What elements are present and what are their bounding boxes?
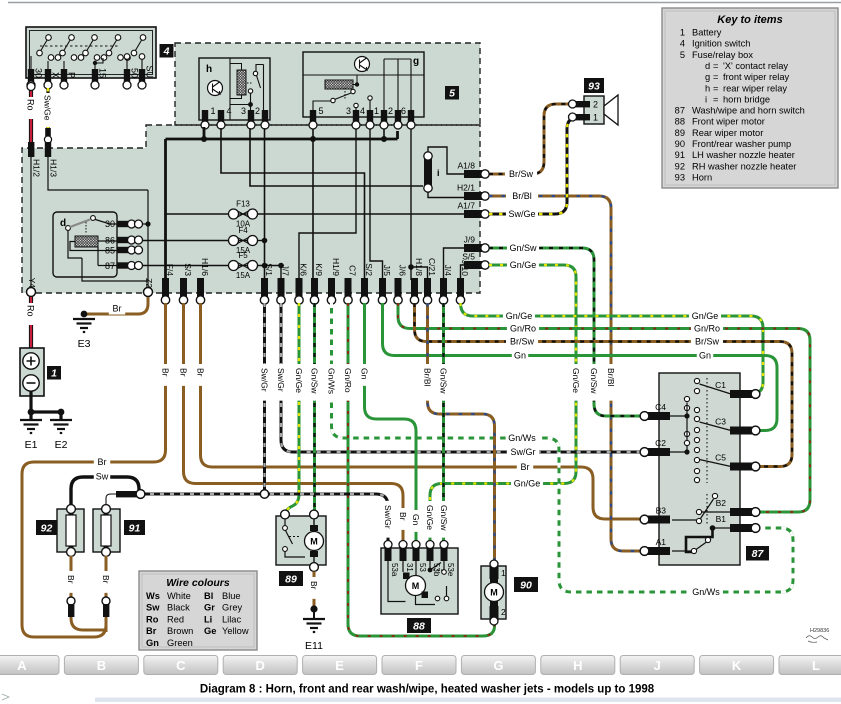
wire Gn/Ws H1/9 to B1 xyxy=(332,303,794,592)
svg-text:2: 2 xyxy=(388,106,393,116)
fuse F4 xyxy=(233,240,253,242)
relay g xyxy=(303,52,424,117)
svg-text:Br: Br xyxy=(98,457,107,467)
svg-text:M: M xyxy=(412,581,420,591)
svg-text:G: G xyxy=(493,658,503,673)
wire name labels xyxy=(505,168,537,180)
svg-text:Gn/Sw: Gn/Sw xyxy=(439,368,449,394)
svg-text:F5: F5 xyxy=(238,251,248,260)
svg-text:Gr: Gr xyxy=(204,603,215,613)
horn 93 xyxy=(584,78,604,93)
svg-text:rear wiper relay: rear wiper relay xyxy=(723,83,787,93)
svg-text:4: 4 xyxy=(360,106,365,116)
svg-text:Gn/Ge: Gn/Ge xyxy=(692,311,719,321)
svg-text:Br: Br xyxy=(161,368,171,377)
svg-text:Fuse/relay box: Fuse/relay box xyxy=(692,50,753,60)
svg-text:Red: Red xyxy=(167,614,184,624)
svg-text:B3: B3 xyxy=(656,506,667,516)
svg-text:5: 5 xyxy=(680,50,685,60)
svg-text:Br: Br xyxy=(113,304,122,314)
svg-text:=: = xyxy=(713,72,718,82)
svg-text:White: White xyxy=(167,591,191,601)
inner wiring: H1/2 to Y4 xyxy=(30,157,32,288)
svg-text:30: 30 xyxy=(34,68,44,78)
svg-text:A1/8: A1/8 xyxy=(458,161,476,171)
wire Gn/Sw K/9 to 89 xyxy=(313,303,316,510)
svg-text:Wire colours: Wire colours xyxy=(166,577,230,589)
relay d xyxy=(53,212,117,277)
svg-text:Gn/Sw: Gn/Sw xyxy=(310,368,320,394)
svg-text:Key to items: Key to items xyxy=(717,14,782,26)
inner wiring: g pin3 to K/6 xyxy=(299,129,356,280)
svg-text:Ge: Ge xyxy=(204,626,216,636)
ground E1 xyxy=(20,419,42,421)
svg-text:H1/2: H1/2 xyxy=(32,159,42,177)
inner wiring: F5 left to d-87 xyxy=(143,265,229,267)
svg-text:J/6: J/6 xyxy=(398,265,408,277)
svg-text:Gn: Gn xyxy=(514,351,526,361)
inner wiring: d-87 area to Z2 xyxy=(82,258,148,281)
svg-text:J/4: J/4 xyxy=(443,265,453,277)
svg-text:Gn: Gn xyxy=(146,638,159,648)
relay h xyxy=(199,58,270,120)
svg-text:Gn/Ge: Gn/Ge xyxy=(294,368,304,393)
wire Br/Bl C/21 to 90 pin1 xyxy=(428,303,495,560)
svg-text:Gn/Ge: Gn/Ge xyxy=(514,479,541,489)
svg-text:Brown: Brown xyxy=(167,626,193,636)
svg-text:1: 1 xyxy=(680,28,685,38)
wire Br/Bl H2/1 to A1 xyxy=(489,196,640,551)
svg-text:Sw/Ge: Sw/Ge xyxy=(508,209,535,219)
ground E3 xyxy=(73,318,95,320)
rotated labels near 88 xyxy=(383,501,394,538)
svg-text:C1: C1 xyxy=(715,380,726,390)
inner wiring: H1/3 down and right to Z2 riser xyxy=(48,157,148,288)
svg-text:L: L xyxy=(812,658,820,673)
svg-text:S/3: S/3 xyxy=(183,263,193,276)
svg-text:J/7: J/7 xyxy=(281,265,291,277)
inner wiring: d-30 to riser xyxy=(143,223,149,225)
svg-text:F4: F4 xyxy=(238,226,248,235)
svg-text:Black: Black xyxy=(167,603,190,613)
fuse/relay box 5 dashed outline relay sub-box xyxy=(175,43,480,125)
svg-text:Horn: Horn xyxy=(692,172,712,182)
svg-text:1: 1 xyxy=(593,113,598,123)
rotated labels heaters xyxy=(66,571,77,593)
svg-text:d: d xyxy=(705,61,710,71)
svg-text:F: F xyxy=(415,658,423,673)
svg-text:89: 89 xyxy=(675,128,685,138)
svg-text:Rear wiper motor: Rear wiper motor xyxy=(692,128,763,138)
svg-text:B2: B2 xyxy=(716,498,727,508)
svg-text:B: B xyxy=(97,658,106,673)
fuse F5 xyxy=(233,265,253,267)
svg-text:E3: E3 xyxy=(78,338,91,350)
svg-text:85: 85 xyxy=(105,246,115,256)
rear wiper motor 89 xyxy=(276,516,326,565)
inner wiring: F4 left to d-86 xyxy=(143,240,229,242)
svg-text:2: 2 xyxy=(255,106,260,116)
svg-text:Ignition switch: Ignition switch xyxy=(692,39,750,49)
svg-text:g: g xyxy=(413,56,419,67)
svg-text:B1: B1 xyxy=(716,514,727,524)
svg-text:50: 50 xyxy=(130,68,140,78)
svg-text:86: 86 xyxy=(105,236,115,246)
svg-text:Gn/Ge: Gn/Ge xyxy=(510,260,537,270)
wire Sw/Gr connector line to 88 pin 53a xyxy=(140,494,388,541)
svg-text:4: 4 xyxy=(163,46,170,58)
svg-text:31: 31 xyxy=(405,563,414,572)
svg-text:K/6: K/6 xyxy=(299,263,309,276)
svg-text:H29836: H29836 xyxy=(810,628,829,634)
svg-text:K/9: K/9 xyxy=(314,263,324,276)
svg-text:H1/3: H1/3 xyxy=(49,159,59,177)
wash/wipe and horn switch 87 xyxy=(659,373,740,565)
svg-text:1: 1 xyxy=(374,106,379,116)
svg-text:Ro: Ro xyxy=(26,305,36,317)
inline connector 92 xyxy=(67,597,75,605)
svg-text:J: J xyxy=(654,658,661,673)
svg-text:Br: Br xyxy=(196,368,206,377)
wire Gn/Ge S/5 to 88 pin 53b xyxy=(430,265,576,541)
wire Br E3 to Z2 xyxy=(84,297,148,314)
svg-text:Gn/Ro: Gn/Ro xyxy=(694,324,720,334)
svg-text:S/5: S/5 xyxy=(462,252,475,262)
svg-text:A1: A1 xyxy=(656,537,667,547)
svg-text:15A: 15A xyxy=(236,271,251,280)
ignition switch 4 xyxy=(26,27,156,78)
inner wiring: h pin2 to S/1 with fuse taps xyxy=(264,128,266,280)
svg-text:H1/9: H1/9 xyxy=(331,258,341,276)
svg-text:C: C xyxy=(176,658,186,673)
inner wiring: h pin3 to i bridge xyxy=(250,128,423,186)
svg-text:91: 91 xyxy=(675,150,685,160)
svg-text:Li: Li xyxy=(204,614,212,624)
svg-text:90: 90 xyxy=(675,139,685,149)
svg-text:RH washer nozzle heater: RH washer nozzle heater xyxy=(692,161,796,171)
svg-text:Gn/Sw: Gn/Sw xyxy=(509,243,537,253)
svg-text:5: 5 xyxy=(319,106,324,116)
svg-text:H1/8: H1/8 xyxy=(414,258,424,276)
svg-text:front wiper relay: front wiper relay xyxy=(723,72,789,82)
svg-text:Sw/Gr: Sw/Gr xyxy=(510,447,535,457)
svg-text:Br: Br xyxy=(521,462,530,472)
svg-text:LH washer nozzle heater: LH washer nozzle heater xyxy=(692,150,795,160)
inner wiring: g pin6 to H1/8 and C/21 xyxy=(411,129,428,280)
svg-text:E: E xyxy=(335,658,344,673)
svg-text:2: 2 xyxy=(501,607,506,617)
svg-text:53a: 53a xyxy=(390,563,399,577)
svg-text:Br/Sw: Br/Sw xyxy=(509,169,534,179)
svg-text:4: 4 xyxy=(680,39,685,49)
svg-text:A1/7: A1/7 xyxy=(458,201,476,211)
svg-text:E1: E1 xyxy=(25,439,38,451)
svg-text:'X' contact relay: 'X' contact relay xyxy=(723,61,788,71)
wire Sw 92 to connector xyxy=(71,477,139,505)
svg-text:Gn: Gn xyxy=(360,368,370,380)
bottom terminals of fusebox xyxy=(162,278,169,298)
svg-text:C/21: C/21 xyxy=(427,258,437,276)
label 87 xyxy=(746,546,769,561)
svg-text:J/5: J/5 xyxy=(382,265,392,277)
wire Br 89 to E11 xyxy=(313,572,316,607)
svg-text:Br/Bl: Br/Bl xyxy=(606,368,616,387)
wire Gn J/5 to C3 xyxy=(383,303,778,431)
inner wiring: g pin4 to J/5 xyxy=(370,129,383,280)
svg-text:=: = xyxy=(713,83,718,93)
svg-text:90: 90 xyxy=(520,579,532,591)
horn bridge i xyxy=(424,158,432,186)
top border line xyxy=(8,2,841,4)
svg-text:Front wiper motor: Front wiper motor xyxy=(692,117,765,127)
inner wiring: S/5 to J/10 xyxy=(461,265,465,280)
front wiper motor 88 xyxy=(381,548,458,614)
junction circle S/1 xyxy=(260,490,268,498)
washer pump 90 xyxy=(481,566,506,619)
key to items legend xyxy=(662,8,838,188)
ground E11 xyxy=(303,618,325,620)
battery 1 xyxy=(20,348,44,396)
svg-text:Yellow: Yellow xyxy=(222,626,249,636)
svg-text:Sw/Gr: Sw/Gr xyxy=(276,368,286,392)
svg-text:C5: C5 xyxy=(715,453,726,463)
svg-text:Bl: Bl xyxy=(204,591,213,601)
svg-text:Sw: Sw xyxy=(96,472,109,482)
svg-text:i: i xyxy=(437,168,440,178)
svg-text:D: D xyxy=(256,658,265,673)
wire Sw/Ge A1/7 to horn xyxy=(489,117,579,214)
svg-text:Gn/Ge: Gn/Ge xyxy=(425,505,435,530)
svg-text:87: 87 xyxy=(675,106,685,116)
svg-text:=: = xyxy=(713,94,718,104)
svg-text:A: A xyxy=(17,658,27,673)
bottom edge strip xyxy=(95,698,841,703)
inner wiring: h pin4 to S/2 xyxy=(221,128,365,280)
column letter buttons xyxy=(0,656,59,675)
svg-text:53e: 53e xyxy=(446,563,455,577)
wire colours legend xyxy=(139,571,257,650)
svg-text:Sw: Sw xyxy=(146,603,160,613)
svg-text:M: M xyxy=(310,537,318,547)
svg-text:Grey: Grey xyxy=(222,603,242,613)
svg-text:Sw/Gr: Sw/Gr xyxy=(260,368,270,392)
svg-text:Br/Sw: Br/Sw xyxy=(510,337,535,347)
svg-text:89: 89 xyxy=(285,573,297,585)
fuse/relay box 5 tinted area xyxy=(22,43,480,293)
svg-text:C2: C2 xyxy=(655,438,666,448)
right edge terminals of fusebox xyxy=(464,170,482,178)
svg-text:92: 92 xyxy=(41,522,53,534)
wire Gn/Ge K/6 to 89 xyxy=(285,303,299,517)
rotated wire labels below fusebox xyxy=(160,364,171,386)
svg-text:Sw/Ge: Sw/Ge xyxy=(43,95,53,121)
inner wiring: g pin1 stub xyxy=(383,129,385,139)
inner wiring: F13 right to A1/7 xyxy=(258,213,465,215)
svg-text:1: 1 xyxy=(501,568,506,578)
svg-text:88: 88 xyxy=(413,620,425,632)
svg-text:H: H xyxy=(573,658,582,673)
inner wiring: thick bus from h pin1 / F4 terminal xyxy=(166,127,398,280)
svg-text:i: i xyxy=(705,94,707,104)
svg-text:C7: C7 xyxy=(348,265,358,276)
svg-text:Blue: Blue xyxy=(222,591,241,601)
svg-text:6: 6 xyxy=(401,106,406,116)
inline connector 91 xyxy=(102,597,110,605)
inner wiring: F13 left xyxy=(166,213,229,215)
svg-text:Ro: Ro xyxy=(26,99,36,111)
svg-text:S/1: S/1 xyxy=(264,263,274,276)
label 5 xyxy=(445,86,459,100)
svg-text:SU: SU xyxy=(145,65,155,78)
svg-text:E2: E2 xyxy=(55,439,68,451)
svg-text:Br/Bl: Br/Bl xyxy=(423,368,433,387)
svg-text:Br: Br xyxy=(309,581,319,590)
svg-text:2: 2 xyxy=(593,100,598,110)
svg-text:K: K xyxy=(732,658,742,673)
svg-text:30: 30 xyxy=(105,219,115,229)
wire Sw/Gr S/1 down to junction xyxy=(263,303,266,490)
svg-text:Gn/Sw: Gn/Sw xyxy=(439,505,449,531)
svg-text:4: 4 xyxy=(227,106,232,116)
svg-text:Br: Br xyxy=(146,626,157,636)
svg-text:Y4: Y4 xyxy=(27,278,37,289)
wire Sw/Ge ignition to H1/3 xyxy=(46,88,49,130)
svg-text:Gn: Gn xyxy=(699,351,711,361)
svg-text:Green: Green xyxy=(167,638,193,648)
svg-text:Ws: Ws xyxy=(146,591,160,601)
svg-text:Diagram 8 : Horn, front and re: Diagram 8 : Horn, front and rear wash/wi… xyxy=(200,684,655,696)
svg-text:88: 88 xyxy=(675,117,685,127)
svg-text:C3: C3 xyxy=(715,417,726,427)
svg-text:F/4: F/4 xyxy=(165,264,175,277)
label 1 xyxy=(47,366,61,380)
svg-text:H1/6: H1/6 xyxy=(200,258,210,276)
svg-text:horn bridge: horn bridge xyxy=(723,94,770,104)
wire Br/Sw H1/8 to C5 xyxy=(415,303,793,467)
wire Gn/Sw J/4 to 88 pin 53e xyxy=(442,303,445,541)
terminal Z2 xyxy=(144,288,153,297)
svg-text:Br/Bl: Br/Bl xyxy=(512,191,532,201)
svg-text:S/2: S/2 xyxy=(364,263,374,276)
wire Gn S/2 to 88 pin 53 xyxy=(365,303,417,541)
inline connector 91/92 junction xyxy=(116,491,137,497)
wire Br H1/6 to B3 xyxy=(201,303,641,519)
svg-text:93: 93 xyxy=(588,80,600,92)
svg-text:C4: C4 xyxy=(655,402,666,412)
svg-text:X: X xyxy=(51,72,61,78)
svg-text:Ro: Ro xyxy=(146,614,159,624)
wire Br/Sw A1/8 to horn xyxy=(489,104,572,174)
svg-text:15: 15 xyxy=(98,68,108,78)
svg-text:M: M xyxy=(490,588,498,598)
svg-text:5: 5 xyxy=(449,88,455,100)
svg-text:Gn/Ge: Gn/Ge xyxy=(506,311,533,321)
wire Br S/3 to 88 pin31 xyxy=(184,303,404,541)
inner wiring: F5 right to J/7 xyxy=(258,266,282,281)
svg-text:Gn/Ws: Gn/Ws xyxy=(508,433,536,443)
svg-text:Br: Br xyxy=(398,512,408,521)
wire Gn/Ro C7 to 90 pin2 xyxy=(348,303,495,636)
label 4 xyxy=(160,44,174,58)
svg-text:3: 3 xyxy=(346,106,351,116)
inner wiring: g pin5 down to K/9 xyxy=(312,129,314,280)
inner wiring: J/9 to J/4 xyxy=(444,248,465,280)
svg-text:Gn/Ge: Gn/Ge xyxy=(571,368,581,393)
svg-text:P: P xyxy=(67,72,77,78)
wire Ro Y4 to battery xyxy=(29,297,33,352)
svg-text:Gn/Ws: Gn/Ws xyxy=(692,587,720,597)
fuse F13 xyxy=(233,213,253,215)
svg-text:93: 93 xyxy=(675,172,685,182)
rotated wire labels right column xyxy=(571,364,582,401)
svg-text:92: 92 xyxy=(675,161,685,171)
svg-text:Gn/Ro: Gn/Ro xyxy=(510,324,536,334)
washer nozzle heater 91 xyxy=(93,509,120,552)
wire Gn/Ro J/6 to B2 xyxy=(398,303,810,512)
wire Sw/Gr J/7 to C2 xyxy=(281,303,640,452)
svg-text:87: 87 xyxy=(105,261,115,271)
svg-text:Front/rear washer pump: Front/rear washer pump xyxy=(692,139,791,149)
svg-text:Battery: Battery xyxy=(692,28,722,38)
wire Ro ignition to H1/2 xyxy=(29,88,33,142)
battery negative to grounds E1 E2 xyxy=(31,391,61,419)
svg-text:Z2: Z2 xyxy=(144,278,154,288)
svg-text:h: h xyxy=(206,64,212,75)
wire Gn/Sw J/9 to C4 xyxy=(489,248,640,416)
terminal Y4 xyxy=(27,288,36,297)
svg-text:Gn/Ws: Gn/Ws xyxy=(327,368,337,394)
svg-text:E11: E11 xyxy=(305,640,323,652)
svg-text:1: 1 xyxy=(51,368,57,380)
ground E2 xyxy=(50,419,72,421)
svg-text:Sw/Gr: Sw/Gr xyxy=(383,505,393,529)
svg-text:1: 1 xyxy=(211,106,216,116)
svg-text:H2/1: H2/1 xyxy=(457,183,475,193)
fuse/relay box 5 dashed outline main box xyxy=(22,125,480,293)
washer nozzle heater 92 xyxy=(57,509,84,552)
svg-text:53: 53 xyxy=(418,563,427,572)
svg-text:Gn/Sw: Gn/Sw xyxy=(589,368,599,394)
svg-text:Gn: Gn xyxy=(411,514,421,526)
svg-text:Wash/wipe and horn switch: Wash/wipe and horn switch xyxy=(692,106,805,116)
wire Br F/4 to heater loop xyxy=(22,303,166,637)
svg-text:Br: Br xyxy=(179,368,189,377)
inner wiring: F4 right xyxy=(258,240,265,242)
svg-text:3: 3 xyxy=(241,106,246,116)
svg-text:Br/Sw: Br/Sw xyxy=(695,337,720,347)
svg-text:J/9: J/9 xyxy=(464,235,476,245)
svg-text:Br: Br xyxy=(101,575,111,584)
svg-text:g: g xyxy=(705,72,710,82)
svg-text:Br: Br xyxy=(66,575,76,584)
svg-text:F13: F13 xyxy=(236,200,250,209)
wire Br 92 down xyxy=(71,556,106,630)
svg-text:h: h xyxy=(705,83,710,93)
svg-text:=: = xyxy=(713,61,718,71)
svg-text:87: 87 xyxy=(752,548,765,560)
svg-text:91: 91 xyxy=(129,522,141,534)
wire Gn/Ge J/10 to C1 xyxy=(461,303,764,394)
svg-text:Gn/Ro: Gn/Ro xyxy=(343,368,353,393)
svg-text:Lilac: Lilac xyxy=(222,614,241,624)
wire Br 91 down xyxy=(105,556,108,632)
